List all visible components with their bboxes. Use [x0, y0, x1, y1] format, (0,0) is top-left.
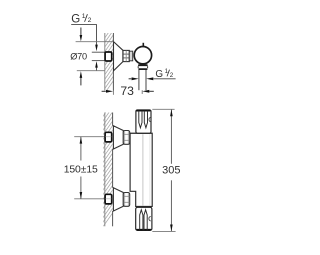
bottom knob groove A: [140, 210, 143, 230]
svg-text:Ø70: Ø70: [70, 51, 87, 61]
label G 1/2 (right) with underline: [154, 78, 176, 80]
wall right edge (top view): [112, 33, 114, 42]
union nut barrel upper: [123, 131, 129, 145]
svg-text:G: G: [155, 69, 163, 80]
dim 305: extension lines: [152, 108, 174, 110]
thermostat knob circle (top view): [134, 47, 151, 64]
wall left edge (top view): [104, 33, 106, 91]
bottom knob groove B: [144, 210, 147, 230]
dim 73: right arrow at pipe centerline: [142, 90, 149, 93]
dim 305: dimension line: [170, 110, 172, 164]
wall hatching (bottom view): [99, 95, 118, 233]
top knob (bottom view): [136, 110, 151, 133]
escutcheon upper (bottom view): [113, 126, 123, 149]
dim Ø70: top arrow: [80, 28, 82, 36]
underline of G 1/2 (top): [71, 24, 97, 26]
gap ring between tube and bottom knob: [136, 205, 138, 208]
square wall union lower (bottom view): [105, 194, 112, 204]
svg-text:150±15: 150±15: [64, 164, 98, 175]
svg-text:2: 2: [88, 17, 92, 24]
union nut (top view): [123, 50, 129, 61]
bottom knob side notch: [149, 216, 151, 221]
dim Ø70: bottom arrow: [80, 77, 82, 85]
centerline upper connection: [74, 136, 105, 138]
lower stub arrow (points up at stub): [96, 67, 98, 71]
body tube (bottom view): [130, 133, 152, 206]
leader from G 1/2 down to stub (top): [96, 25, 98, 46]
square wall union (top view): [105, 52, 112, 61]
bottom knob (bottom view): [136, 207, 152, 230]
svg-text:305: 305: [162, 164, 180, 176]
outlet pipe (top view): [138, 70, 140, 90]
wall hatching (top view): [100, 14, 118, 100]
escutcheon lower (bottom view): [113, 188, 123, 211]
svg-text:2: 2: [170, 72, 174, 79]
top knob groove B: [144, 111, 147, 128]
indicator tick above knob: [142, 43, 144, 47]
top knob groove A: [139, 111, 142, 128]
square wall union upper (bottom view): [105, 132, 112, 142]
dim G 1/2 (right, at outlet pipe): arrows: [129, 78, 132, 80]
union nut barrel lower: [123, 193, 129, 207]
ring between nut and knob (top view): [129, 51, 132, 61]
dim 73: left arrow at wall face: [102, 90, 106, 92]
outlet collar below knob (top view): [138, 64, 148, 66]
dim Ø70: extension lines: [76, 41, 114, 43]
wall right edge (bottom view): [112, 113, 114, 126]
dim 73: wall face extension: [112, 91, 114, 95]
dim 150±15: dimension line: [80, 137, 82, 161]
supply stub pipe behind wall (top view): [92, 51, 105, 53]
wall left edge (bottom view): [104, 113, 106, 227]
top knob side notch: [149, 117, 151, 122]
centerline lower connection: [74, 198, 105, 200]
svg-text:G: G: [71, 14, 80, 26]
label G 1/2 (top): [71, 13, 91, 25]
dim 73: pipe centerline extension: [141, 90, 143, 94]
svg-text:73: 73: [120, 84, 134, 98]
escutcheon cone (top view): [114, 42, 123, 71]
